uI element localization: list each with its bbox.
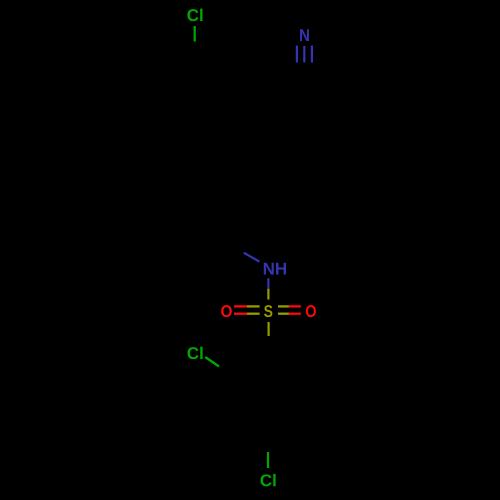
atom label S1 (sulfur): [264, 305, 272, 317]
atom label N2 (sulfonamide NH): [264, 263, 286, 275]
bond Cl1-C (chlorine half, green): [194, 26, 196, 42]
bond Cl2-C (chlorine half, green diagonal): [205, 357, 219, 367]
bond N-S (sulfur half, olive): [267, 289, 269, 300]
double bond S=O left, top line (sulfur half, olive): [247, 305, 260, 307]
nitrile triple bond (nitrogen half, blue) line 1: [296, 46, 298, 63]
double bond S=O left, top line (oxygen half, red): [234, 305, 247, 307]
bond Cl3-C (chlorine half, green): [267, 452, 269, 468]
double bond S=O right, bottom line (oxygen half, red): [289, 313, 301, 315]
bond N-S (nitrogen half, blue): [267, 278, 269, 288]
nitrile triple bond (nitrogen half, blue) line 2: [303, 46, 305, 63]
double bond S=O left, bottom line (sulfur half, olive): [247, 313, 260, 315]
atom label O1 (left oxygen): [221, 305, 232, 317]
carbon skeleton bottom ring (black on black, invisible): [228, 363, 309, 425]
bond CH2-N (nitrogen half, blue diagonal): [244, 253, 260, 262]
atom label Cl3 (ring para chlorine): [261, 474, 276, 486]
atom label Cl2 (ring ortho chlorine): [188, 347, 203, 359]
double bond S=O right, bottom line (sulfur half, olive): [278, 313, 289, 315]
double bond S=O left, bottom line (oxygen half, red): [234, 313, 247, 315]
double bond S=O right, top line (oxygen half, red): [289, 305, 301, 307]
atom label O2 (right oxygen): [306, 305, 316, 317]
atom label Cl1 (top chlorine): [187, 9, 202, 21]
bond S-C ring (sulfur half, olive): [268, 322, 270, 336]
atom label N1 (nitrile nitrogen): [300, 29, 309, 41]
double bond S=O right, top line (sulfur half, olive): [278, 305, 289, 307]
carbon skeleton top ring (black on black, invisible): [149, 68, 305, 244]
nitrile triple bond (nitrogen half, blue) line 3: [311, 46, 313, 63]
